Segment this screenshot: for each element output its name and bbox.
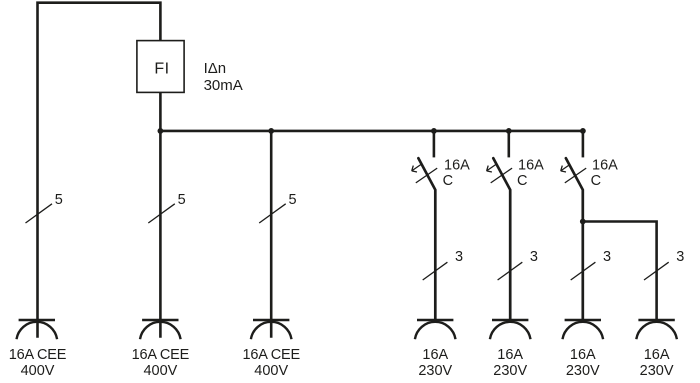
wire drop to socket X3 — [270, 131, 273, 338]
breaker Q1 — [412, 131, 438, 321]
socket X1 16A CEE 400V — [9, 320, 67, 379]
socket X6 16A 230V — [563, 320, 604, 379]
conductor-count slash wire X2 (5) — [148, 192, 185, 223]
breaker Q2 — [487, 131, 512, 321]
conductor-count slash wire X7 (3) — [644, 249, 684, 280]
wire breaker Q3 branch to socket X7 — [583, 222, 657, 321]
svg-text:30mA: 30mA — [204, 77, 243, 94]
junction node bus/FI — [158, 128, 164, 134]
socket X4 16A 230V — [415, 320, 456, 379]
svg-text:16A CEE: 16A CEE — [9, 347, 67, 363]
label Q1 16A C — [443, 157, 471, 189]
svg-text:5: 5 — [55, 192, 63, 208]
conductor-count slash wire Q1-X4 (3) — [423, 249, 463, 280]
svg-text:230V: 230V — [640, 363, 674, 379]
svg-text:C: C — [517, 173, 527, 189]
wire bus horizontal — [160, 130, 584, 133]
svg-text:3: 3 — [603, 249, 611, 265]
svg-text:C: C — [591, 173, 601, 189]
wire top feed (left corner down to socket X1 and across to FI) — [38, 3, 161, 338]
svg-text:230V: 230V — [566, 363, 600, 379]
wire FI output down to bus — [159, 92, 162, 131]
junction node bus/Q2 — [506, 128, 512, 134]
svg-text:230V: 230V — [418, 363, 452, 379]
svg-text:5: 5 — [178, 192, 186, 208]
label IΔn 30mA — [204, 60, 243, 94]
svg-text:230V: 230V — [493, 363, 527, 379]
svg-text:16A: 16A — [644, 347, 670, 363]
breaker Q3 — [561, 131, 587, 321]
wire drop to socket X2 — [159, 131, 162, 338]
svg-text:16A: 16A — [570, 347, 596, 363]
socket X2 16A CEE 400V — [132, 320, 190, 379]
svg-text:16A CEE: 16A CEE — [242, 347, 300, 363]
svg-text:IΔn: IΔn — [204, 60, 227, 77]
conductor-count slash wire Q3-X6 (3) — [571, 249, 611, 280]
label Q2 16A C — [517, 157, 544, 189]
socket X5 16A 230V — [490, 320, 531, 379]
svg-text:16A: 16A — [497, 347, 523, 363]
svg-text:3: 3 — [530, 249, 538, 265]
svg-text:16A: 16A — [422, 347, 448, 363]
junction node Q3 branch — [580, 219, 586, 225]
conductor-count slash wire Q2-X5 (3) — [498, 249, 538, 280]
svg-text:16A: 16A — [518, 157, 544, 173]
svg-text:C: C — [443, 173, 453, 189]
svg-text:16A: 16A — [444, 157, 470, 173]
svg-text:5: 5 — [289, 192, 297, 208]
junction node bus/Q3 — [580, 128, 586, 134]
svg-text:400V: 400V — [254, 363, 288, 379]
socket X3 16A CEE 400V — [242, 320, 300, 379]
socket X7 16A 230V — [636, 320, 677, 379]
conductor-count slash wire X3 (5) — [259, 192, 296, 223]
junction node bus/Q1 — [431, 128, 437, 134]
RCD FI box — [137, 41, 184, 93]
label Q3 16A C — [591, 157, 619, 189]
svg-text:400V: 400V — [143, 363, 177, 379]
junction node bus/X3 — [268, 128, 274, 134]
svg-text:3: 3 — [455, 249, 463, 265]
svg-text:400V: 400V — [21, 363, 55, 379]
svg-text:FI: FI — [154, 60, 169, 77]
svg-text:16A CEE: 16A CEE — [132, 347, 190, 363]
svg-text:16A: 16A — [592, 157, 618, 173]
conductor-count slash wire X1 (5) — [26, 192, 63, 223]
svg-text:3: 3 — [676, 249, 684, 265]
